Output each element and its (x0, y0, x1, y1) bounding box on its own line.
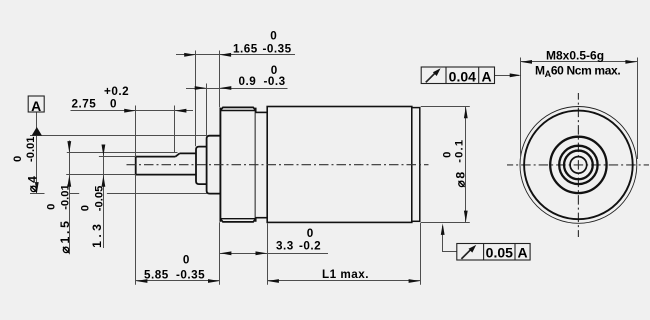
arrow leader 0.05 (up) (441, 223, 445, 235)
arrow 0.9 left (195, 86, 207, 90)
arrow diam4 bottom (down) (35, 182, 39, 194)
arrow 3.3 right (256, 251, 268, 255)
arrow 5.85 right (inside) (208, 279, 220, 283)
dim line 1.65 (176, 54, 295, 56)
dim line 2.75 (71, 110, 194, 112)
svg-text:0: 0 (110, 97, 117, 110)
arrow leader 0.04 (right) (510, 73, 522, 77)
arrow M8 right (625, 60, 637, 64)
collar C1 (bearing hub small) (196, 147, 208, 185)
arrow 3.3 left (220, 251, 232, 255)
shaft chamfer step (176, 153, 180, 156)
arrow 0.9 right (220, 86, 232, 90)
diam8 dim line vertical (465, 107, 467, 223)
ext line shaft step vertical (174, 106, 176, 154)
svg-text:0: 0 (307, 227, 314, 240)
flange bottom chamfer inner line (220, 218, 255, 220)
arrow M8 left (521, 60, 533, 64)
dim line 3.3 (220, 253, 328, 255)
diam1.5 dim line vertical (69, 141, 71, 255)
ext line flange left vertical lower (219, 222, 221, 284)
inner circle r19 (559, 146, 597, 184)
shaft rear top edge (180, 152, 197, 154)
arrow 1.65 left (outside pointing right) (184, 53, 196, 57)
M8 ext right vertical (637, 58, 639, 160)
flange top chamfer inner line (220, 110, 255, 112)
diam4 dim line vertical (36, 136, 38, 194)
svg-text:0.04: 0.04 (449, 68, 476, 84)
diam4 ext bottom segment b (70, 193, 79, 195)
svg-text:⌀4: ⌀4 (26, 174, 40, 193)
neck groove fill (256, 112, 268, 217)
motor body main rectangle (267, 107, 412, 223)
inner circle r14 (564, 151, 593, 180)
shaft flat top edge (136, 156, 176, 158)
shaft end face (135, 156, 137, 175)
svg-text:3.3: 3.3 (276, 239, 294, 252)
arrow diam8 bottom (inside down) (464, 211, 468, 223)
arrow diam1.5 bottom (outside pointing up) (67, 175, 71, 187)
arrow 1.3 bottom (102, 175, 106, 187)
leader 0.05 frame (443, 226, 457, 252)
runout symbol arrow (461, 249, 471, 259)
svg-text:M8x0.5-6g: M8x0.5-6g (546, 48, 604, 62)
flange bottom outer edge with chamfers (220, 219, 255, 222)
svg-text:0: 0 (270, 30, 277, 43)
ext line shaft end vertical lower (135, 175, 137, 285)
svg-text:A: A (482, 68, 492, 84)
shaft bottom edge (136, 174, 197, 176)
svg-text:-0.35: -0.35 (263, 42, 292, 55)
svg-text:A: A (517, 245, 527, 261)
svg-text:0.9: 0.9 (239, 75, 257, 88)
svg-text:0.05: 0.05 (486, 245, 513, 261)
svg-text:L1 max.: L1 max. (322, 268, 369, 281)
svg-text:-0.35: -0.35 (176, 269, 205, 282)
ext line collar C2 left vertical (206, 84, 208, 136)
ext line flange left vertical upper (219, 51, 221, 108)
front view horizontal centerline (507, 164, 649, 166)
arrow 1.65 right (outside pointing left) (220, 53, 232, 57)
runout symbol arrow (426, 73, 436, 83)
arrow 1.3 top (102, 145, 106, 157)
ext line collar C1 left vertical (195, 51, 197, 147)
front view vertical centerline (577, 93, 579, 237)
ext line shaft end vertical upper (135, 106, 137, 157)
svg-text:-0.1: -0.1 (454, 139, 466, 163)
arrow 5.85 left (inside) (136, 279, 148, 283)
ext line body right vertical lower (420, 223, 422, 285)
outer thread major circle (thin) (520, 106, 637, 223)
leader 0.04 frame (495, 75, 519, 77)
svg-text:-0.05: -0.05 (94, 186, 106, 212)
flange left edge (219, 108, 221, 222)
motor body end cap (412, 108, 420, 222)
arrow 2.75 right (175, 109, 187, 113)
diam4 ext bottom segment c (107, 193, 207, 195)
dim line L1 (267, 280, 420, 282)
arrow diam1.5 top (outside pointing down) (67, 141, 71, 153)
dim line 5.85 (136, 280, 220, 282)
diam4 ext bottom segment a (30, 193, 45, 195)
arrow diam8 top (inside up) (464, 107, 468, 119)
dim line 0.9 (186, 88, 288, 90)
svg-text:-0.3: -0.3 (264, 75, 286, 88)
arrow L1 left (267, 279, 279, 283)
svg-text:A: A (31, 98, 41, 114)
svg-text:-0.01: -0.01 (25, 137, 37, 163)
arrow 2.75 left (124, 109, 136, 113)
collar C2 (diam 4 hub) (207, 136, 221, 194)
svg-text:0: 0 (271, 64, 278, 77)
datum stem (36, 112, 38, 128)
ext line body left vertical lower (267, 223, 269, 284)
diam8 ext top horizontal (421, 106, 470, 108)
svg-text:0: 0 (46, 204, 58, 210)
svg-text:⌀8: ⌀8 (453, 170, 467, 187)
svg-text:0: 0 (12, 156, 24, 162)
M8 dim line (520, 61, 637, 63)
datum triangle on diam4 (32, 127, 42, 136)
svg-text:1.3: 1.3 (90, 221, 104, 248)
centerline of side view (127, 164, 429, 166)
flange right edge (255, 108, 257, 222)
shaft circle r8 (570, 157, 587, 174)
outer body circle (thick) (524, 111, 633, 220)
dim 1.3 dim line vertical (103, 146, 105, 248)
front flange body fill (220, 107, 255, 221)
diam1.5 ext top horizontal (67, 152, 178, 154)
text M8 thread (535, 48, 620, 79)
shared shaft bottom ext horizontal (66, 174, 136, 176)
flange top outer edge with chamfers (220, 107, 255, 110)
svg-text:5.85: 5.85 (144, 269, 169, 282)
svg-text:⌀1.5: ⌀1.5 (58, 218, 72, 253)
dim1.3 ext top horizontal (99, 156, 136, 158)
svg-text:0: 0 (442, 152, 454, 158)
diam8 ext bottom horizontal (421, 222, 470, 224)
M8 ext left vertical (520, 58, 522, 160)
diam4 ext top (30, 135, 207, 137)
svg-text:2.75: 2.75 (72, 97, 97, 110)
svg-text:1.65: 1.65 (233, 42, 258, 55)
neck bottom edge (256, 217, 268, 219)
svg-text:+0.2: +0.2 (104, 85, 129, 98)
neck top edge (256, 111, 268, 113)
svg-text:0: 0 (183, 253, 190, 266)
arrow L1 right (409, 279, 421, 283)
inner circle r28 (550, 137, 606, 193)
svg-text:-0.01: -0.01 (59, 184, 71, 210)
svg-text:-0.2: -0.2 (299, 239, 321, 252)
svg-text:0: 0 (80, 205, 92, 211)
